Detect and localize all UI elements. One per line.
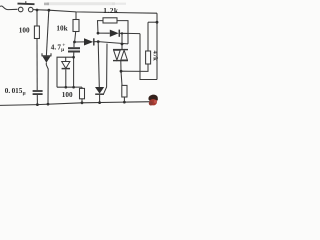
svg-text:100: 100 — [62, 91, 73, 99]
svg-text:100: 100 — [19, 27, 30, 35]
svg-text:10k: 10k — [56, 25, 67, 33]
svg-text:+: + — [62, 43, 65, 49]
svg-text:47k: 47k — [152, 51, 159, 62]
svg-text:1.2k: 1.2k — [103, 6, 119, 15]
